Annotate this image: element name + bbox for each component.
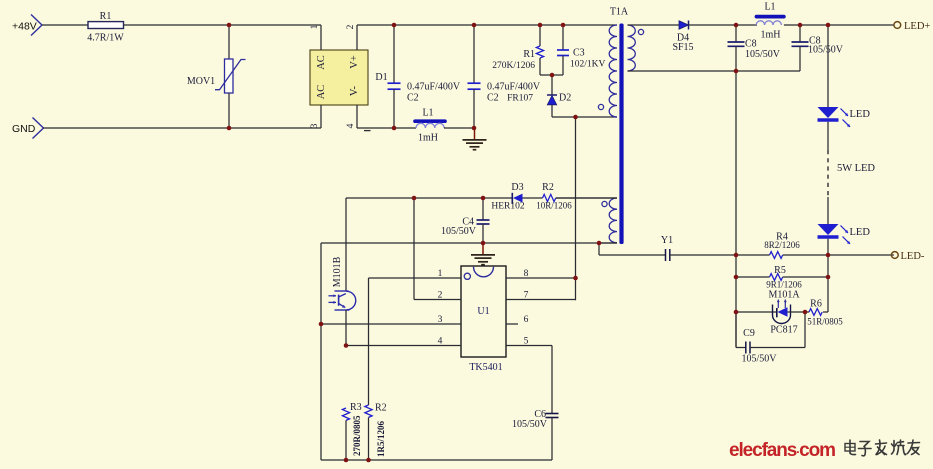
wire R1 to bridge pin1	[124, 24, 322, 26]
wire R2b bottom	[368, 417, 370, 460]
svg-text:4: 4	[438, 336, 443, 346]
wire R1 snubber bottom	[539, 58, 541, 75]
bridge rectifier AC block	[310, 50, 368, 105]
svg-text:1mH: 1mH	[761, 30, 781, 41]
transformer T1A core	[619, 24, 623, 245]
wire aux bottom	[599, 242, 617, 244]
capacitor C2 second	[468, 82, 481, 84]
wire R5 left	[736, 276, 770, 278]
ground input	[474, 128, 476, 140]
svg-text:C2: C2	[407, 93, 419, 104]
wire Y1 left	[599, 254, 666, 256]
junction node 1	[227, 23, 232, 28]
wire secondary bottom	[628, 70, 801, 72]
junction node 11	[472, 126, 477, 131]
wire bridge pin4	[356, 105, 358, 128]
junction node 6	[734, 23, 739, 28]
svg-text:3: 3	[438, 315, 443, 325]
wire R2 to aux	[556, 197, 617, 199]
svg-text:105/50V: 105/50V	[441, 226, 477, 237]
wire bridge pin2	[356, 25, 358, 50]
svg-text:1R5/1206: 1R5/1206	[376, 421, 386, 458]
svg-text:R1: R1	[100, 11, 112, 22]
capacitor C8 first wire top	[735, 25, 737, 42]
svg-text:GND: GND	[12, 123, 36, 135]
svg-text:HER102: HER102	[491, 202, 525, 212]
junction node 19	[734, 253, 739, 258]
logo chinese characters	[845, 440, 920, 456]
junction node 21	[734, 275, 739, 280]
svg-text:V+: V+	[349, 55, 360, 69]
wire R1 snubber top	[539, 25, 541, 46]
svg-text:1mH: 1mH	[418, 133, 438, 144]
svg-text:M101B: M101B	[332, 256, 343, 287]
wire C3 top	[562, 25, 564, 50]
wire to LED2	[827, 197, 829, 224]
junction node 10	[392, 126, 397, 131]
diode D4	[679, 21, 689, 29]
wire MOV1 top	[228, 25, 230, 59]
svg-text:T1A: T1A	[610, 7, 629, 18]
optocoupler M101A LED	[773, 305, 791, 324]
svg-text:R2: R2	[542, 182, 554, 193]
svg-text:R5: R5	[774, 265, 786, 276]
LED D6	[818, 224, 839, 235]
wire C2b top	[473, 25, 475, 83]
capacitor C9	[745, 342, 747, 354]
wire pin1 vertical	[368, 278, 370, 405]
junction node 12	[550, 73, 555, 78]
svg-text:U1: U1	[477, 306, 489, 317]
optocoupler M101B	[335, 290, 349, 292]
svg-text:AC: AC	[316, 85, 327, 100]
svg-text:R3: R3	[350, 402, 362, 413]
wire D4 to L1	[689, 24, 758, 26]
wire GND rail	[44, 127, 322, 129]
wire M101B emitter down	[345, 310, 347, 346]
minus mark	[364, 130, 371, 132]
wire bridge pin1	[320, 25, 322, 50]
wire M101A left	[736, 311, 777, 313]
transformer secondary winding	[628, 25, 636, 71]
svg-text:1: 1	[438, 269, 443, 279]
wire DC- rail	[357, 127, 416, 129]
wire C9 left down	[735, 312, 737, 348]
svg-text:C2: C2	[487, 93, 499, 104]
port +48V	[31, 15, 42, 36]
capacitor C2 first	[388, 82, 401, 84]
wire R3 bottom	[345, 420, 347, 460]
wire aux jog down	[598, 243, 600, 255]
svg-text:2: 2	[346, 24, 356, 29]
svg-text:8: 8	[524, 269, 529, 279]
svg-text:TK5401: TK5401	[469, 362, 502, 373]
junction node 22	[826, 275, 831, 280]
junction node 18	[597, 241, 602, 246]
svg-text:8R2/1206: 8R2/1206	[764, 240, 800, 250]
svg-text:L1: L1	[422, 108, 433, 119]
transformer primary winding	[609, 25, 617, 117]
junction node 16	[481, 196, 486, 201]
wire feedback left	[346, 197, 512, 199]
wire C9 right up	[804, 312, 806, 348]
svg-text:+48V: +48V	[12, 21, 37, 33]
capacitor C8 second	[792, 41, 809, 43]
junction node 20	[826, 253, 831, 258]
wire dashed LED string	[827, 150, 829, 197]
svg-text:AC: AC	[316, 55, 327, 70]
wire LED1 down	[827, 122, 829, 150]
svg-text:1: 1	[310, 24, 320, 29]
wire C9 bottom right	[750, 347, 805, 349]
svg-text:270K/1206: 270K/1206	[492, 61, 535, 71]
wire pin3	[321, 323, 461, 325]
wire D2 top	[551, 75, 553, 95]
wire pin2	[414, 299, 461, 301]
aux polarity dot	[602, 201, 607, 206]
svg-text:MOV1: MOV1	[187, 76, 215, 87]
wire M101A right	[788, 311, 806, 313]
resistor R2 bottom	[365, 405, 372, 417]
junction node 24	[734, 310, 739, 315]
wire secondary to D4	[628, 24, 680, 26]
wire C9 bottom left	[736, 347, 746, 349]
inductor L1 output	[757, 15, 784, 19]
diode D2	[547, 94, 557, 96]
svg-text:9R1/1206: 9R1/1206	[766, 280, 802, 290]
svg-text:elecfans·com: elecfans·com	[729, 440, 835, 461]
wire pin1	[369, 277, 462, 279]
wire C3 bottom	[562, 56, 564, 76]
svg-text:R1: R1	[523, 49, 535, 60]
wire pin7 corner	[575, 299, 577, 301]
wire C4 bottom	[482, 224, 484, 243]
svg-text:4: 4	[346, 123, 356, 128]
IC U1 body	[461, 266, 506, 357]
wire pin4	[346, 345, 461, 347]
svg-text:LED: LED	[850, 109, 871, 120]
svg-text:7: 7	[524, 290, 529, 300]
svg-text:105/50V: 105/50V	[745, 49, 781, 60]
LED D5	[818, 107, 839, 118]
resistor R5	[770, 274, 783, 281]
junction node 9	[227, 126, 232, 131]
capacitor Y1	[665, 249, 667, 261]
junction node 14	[734, 69, 739, 74]
svg-text:D3: D3	[511, 182, 523, 193]
wire +48V to R1	[42, 24, 88, 26]
wire pin8 node vertical	[575, 117, 577, 300]
capacitor C6	[546, 413, 559, 415]
resistor R1 snubber	[536, 46, 543, 58]
svg-text:R6: R6	[810, 299, 822, 310]
wire C6 bottom	[551, 418, 553, 461]
svg-text:C9: C9	[743, 328, 755, 339]
junction node 2	[392, 23, 397, 28]
port LED-	[891, 252, 898, 259]
wire C2a bottom	[393, 89, 395, 128]
wire D3 to R2	[523, 197, 543, 199]
wire LED2 to LED- rail	[827, 239, 829, 255]
capacitor C4	[477, 219, 490, 221]
wire D2 bottom	[551, 105, 553, 117]
svg-text:R2: R2	[375, 403, 387, 414]
secondary polarity dot	[638, 29, 643, 34]
junction node 4	[538, 23, 543, 28]
wire M101B collector	[345, 198, 347, 291]
junction node 3	[472, 23, 477, 28]
svg-text:5: 5	[524, 336, 529, 346]
svg-text:0.47uF/400V: 0.47uF/400V	[407, 82, 461, 93]
wire C2b bottom	[473, 89, 475, 128]
resistor R4	[770, 252, 783, 259]
svg-text:4.7R/1W: 4.7R/1W	[87, 33, 124, 44]
svg-text:51R/0805: 51R/0805	[807, 317, 843, 327]
svg-text:0.47uF/400V: 0.47uF/400V	[487, 82, 541, 93]
wire pin2 vertical	[413, 198, 415, 300]
junction node 29	[366, 458, 371, 463]
port GND	[33, 118, 44, 139]
capacitor C8 second wire	[799, 25, 801, 42]
resistor R6	[809, 309, 822, 316]
junction node 5	[561, 23, 566, 28]
junction node 8	[826, 23, 831, 28]
wire R6 right	[823, 311, 828, 313]
wire aux top to R2	[556, 197, 617, 199]
svg-text:LED-: LED-	[901, 251, 925, 262]
svg-text:105/50V: 105/50V	[808, 45, 844, 56]
svg-text:270R/0805: 270R/0805	[352, 415, 362, 456]
wire top rail	[357, 24, 617, 26]
junction node 15	[412, 196, 417, 201]
junction node 26	[319, 322, 324, 327]
svg-text:C8: C8	[745, 39, 757, 50]
svg-text:SF15: SF15	[672, 42, 693, 53]
svg-text:2: 2	[438, 290, 443, 300]
svg-text:V-: V-	[349, 85, 360, 96]
wire R4 to LED-	[783, 254, 894, 256]
svg-text:D1: D1	[375, 72, 387, 83]
svg-text:105/50V: 105/50V	[512, 419, 548, 430]
wire C4 top	[482, 198, 484, 220]
wire pin5 drop	[551, 346, 553, 414]
resistor R1	[88, 22, 124, 29]
wire L1 out to LED+	[784, 24, 894, 26]
transformer aux winding	[609, 198, 617, 243]
junction node 17	[481, 241, 486, 246]
svg-text:6: 6	[524, 315, 529, 325]
LED2 arrows	[841, 226, 849, 234]
svg-text:102/1KV: 102/1KV	[570, 60, 606, 70]
diode D3	[511, 193, 513, 204]
wire pin5	[506, 345, 552, 347]
wire MOV1 bottom	[228, 93, 230, 128]
inductor L1 input	[415, 119, 445, 123]
wire pin8	[506, 277, 576, 279]
svg-text:LED: LED	[850, 227, 871, 238]
svg-text:C3: C3	[573, 48, 585, 59]
port LED+	[894, 22, 901, 29]
IC U1 pin1 mark	[464, 273, 470, 279]
pin 6 stub	[506, 323, 518, 325]
junction node 27	[344, 343, 349, 348]
wire R5 right	[783, 276, 828, 278]
svg-text:FR107: FR107	[507, 94, 533, 104]
wire snubber join	[540, 74, 563, 76]
ground C4	[482, 243, 484, 255]
capacitor C8 first	[728, 41, 745, 43]
varistor MOV1	[225, 59, 234, 93]
wire sec return vertical	[735, 71, 737, 348]
svg-text:LED+: LED+	[904, 21, 930, 32]
svg-text:D2: D2	[559, 93, 571, 104]
wire mid rail	[321, 242, 617, 244]
resistor R3	[342, 408, 349, 420]
wire bottom rail	[321, 459, 552, 461]
svg-text:3: 3	[310, 123, 320, 128]
svg-text:M101A: M101A	[768, 290, 800, 301]
svg-text:5W LED: 5W LED	[837, 163, 875, 174]
svg-text:Y1: Y1	[661, 235, 673, 246]
wire C8b bottom	[799, 47, 801, 72]
wire L1 to ground node	[444, 127, 474, 129]
wire left column	[320, 243, 322, 460]
svg-text:PC817: PC817	[770, 325, 797, 336]
wire right drop	[827, 255, 829, 312]
LED1 arrows	[841, 109, 849, 117]
wire bridge pin3	[320, 105, 322, 128]
junction node 7	[798, 23, 803, 28]
capacitor C3	[557, 49, 569, 51]
resistor R2 feedback	[543, 194, 556, 201]
wire Y1 right	[670, 254, 770, 256]
primary polarity dot	[598, 104, 603, 109]
junction node 25	[803, 310, 808, 315]
wire C2a top	[393, 25, 395, 83]
junction node 28	[344, 458, 349, 463]
svg-text:10R/1206: 10R/1206	[536, 201, 572, 211]
svg-text:L1: L1	[764, 2, 775, 13]
svg-text:105/50V: 105/50V	[742, 354, 778, 365]
junction node 23	[573, 276, 578, 281]
wire pin7	[506, 299, 576, 301]
wire to LED1	[827, 25, 829, 107]
wire C8a bottom	[735, 47, 737, 72]
junction node 13	[573, 115, 578, 120]
wire R6 left	[805, 311, 809, 313]
IC U1 notch	[474, 267, 494, 277]
